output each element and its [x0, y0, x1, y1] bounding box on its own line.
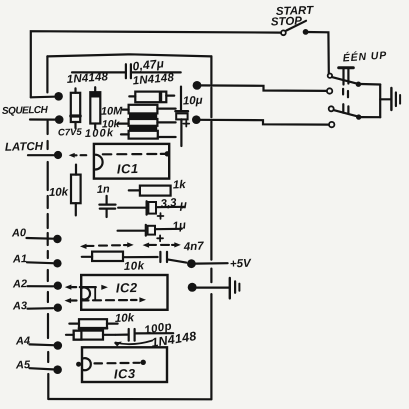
- svg-text:A4: A4: [15, 335, 30, 347]
- node A0: [53, 235, 61, 243]
- wire right rail: [379, 85, 381, 118]
- bar: [129, 126, 157, 131]
- node SQUELCH top: [54, 92, 63, 101]
- diode D3 1N4148: [74, 331, 103, 340]
- dashed arrow pair 4n7: [80, 244, 87, 249]
- node A4: [54, 341, 63, 350]
- node A2: [54, 282, 62, 290]
- wire arm to right rail: [361, 83, 380, 86]
- node SQUELCH bottom: [55, 115, 64, 124]
- bar: [129, 114, 157, 119]
- switch S1 arm: [286, 21, 306, 31]
- svg-text:10M: 10M: [101, 105, 124, 118]
- resistor R 100k bottom: [129, 131, 158, 139]
- svg-text:SQUELCH: SQUELCH: [2, 105, 49, 117]
- resistor R 10k row A1: [92, 252, 123, 261]
- svg-text:C7V5: C7V5: [58, 127, 83, 139]
- switch S1 right terminal dot: [303, 29, 309, 35]
- svg-text:A3: A3: [12, 300, 27, 312]
- svg-text:IC3: IC3: [114, 366, 136, 382]
- wire to squelch node: [31, 96, 54, 99]
- svg-text:1k: 1k: [173, 179, 187, 191]
- wire switch to EEN UP: [306, 32, 329, 73]
- switch S1 START/STOP contact circle: [281, 30, 286, 35]
- module boundary top: [47, 54, 211, 56]
- contact NC lower: [329, 122, 334, 127]
- svg-text:+5V: +5V: [230, 258, 253, 271]
- wire A3 lead: [28, 307, 54, 310]
- svg-text:1μ: 1μ: [172, 219, 187, 233]
- capacitor C 3.3u: [118, 207, 146, 209]
- wire latch lead: [28, 154, 54, 156]
- module boundary right edge: [210, 56, 212, 84]
- module boundary left solid top: [46, 56, 48, 92]
- svg-text:IC2: IC2: [116, 280, 138, 296]
- svg-text:LATCH: LATCH: [5, 141, 44, 154]
- capacitor C 1n: [105, 196, 107, 204]
- wire A1 lead: [27, 261, 53, 264]
- capacitor 0,47u: [125, 64, 127, 78]
- capacitor C 1u: [118, 230, 146, 232]
- capacitor C 100p: [116, 334, 128, 336]
- resistor R 10M: [129, 105, 158, 114]
- contact lower pivot: [329, 106, 334, 111]
- resistor R 100k vertical: [90, 92, 100, 123]
- wire A2 lead: [28, 285, 54, 287]
- svg-text:3,3: 3,3: [160, 197, 178, 211]
- svg-text:μ: μ: [179, 199, 187, 211]
- node A3: [54, 304, 62, 312]
- IC2: [81, 275, 167, 310]
- svg-text:10k: 10k: [115, 312, 135, 325]
- svg-text:4n7: 4n7: [183, 240, 205, 253]
- svg-text:A5: A5: [15, 359, 31, 371]
- node A1: [53, 259, 61, 267]
- op-amp IC1: [94, 144, 169, 179]
- pushbutton EEN UP upper pivot contact: [328, 74, 332, 78]
- wire A5 lead: [30, 368, 54, 369]
- node A5: [53, 365, 62, 374]
- wire overline / cap left wire: [72, 71, 125, 73]
- wire lower arm to rail: [361, 116, 380, 118]
- wire A0 lead: [27, 237, 53, 240]
- ground stub EEN UP: [380, 98, 390, 100]
- svg-text:STOP: STOP: [271, 15, 303, 28]
- wire to +5V: [196, 262, 228, 265]
- svg-text:10k: 10k: [124, 260, 145, 273]
- wire squelch bottom stub: [30, 118, 55, 120]
- wire from C10u bottom to contact: [198, 120, 329, 125]
- svg-text:A0: A0: [11, 227, 27, 239]
- plus 10u: [183, 121, 189, 127]
- contact NC upper: [327, 88, 332, 93]
- capacitor C row A1: [159, 252, 161, 262]
- ground G1: [390, 88, 392, 110]
- diode D2 1N4148: [135, 92, 166, 103]
- node dot C10u top: [193, 81, 202, 90]
- svg-text:100k: 100k: [85, 127, 115, 140]
- node +5V junction: [187, 259, 196, 268]
- wire IC2 gnd junction: [197, 287, 229, 289]
- svg-text:A2: A2: [12, 278, 27, 290]
- svg-text:10k: 10k: [49, 186, 69, 199]
- pushbutton EEN UP lower arm: [334, 110, 357, 116]
- node gnd junction: [188, 283, 197, 292]
- svg-text:10μ: 10μ: [183, 95, 203, 108]
- ground G2: [229, 278, 231, 298]
- actuator legs: [342, 69, 344, 85]
- pushbutton EEN UP upper arm: [332, 77, 357, 84]
- wire outer top: [31, 31, 281, 97]
- svg-text:A1: A1: [12, 253, 27, 265]
- IC3: [82, 347, 167, 382]
- dashed arrow A2: [65, 285, 72, 290]
- latch dashed arrow: [69, 153, 75, 158]
- resistor R 10k left vertical: [71, 175, 81, 204]
- dashed arrow A3: [65, 298, 72, 303]
- resistor R 10k row A4: [79, 319, 107, 328]
- annotation arrow: [116, 341, 153, 345]
- capacitor C 10u electrolytic: [180, 87, 182, 111]
- svg-text:1n: 1n: [97, 183, 111, 196]
- wire from C10u top to contact: [197, 85, 327, 91]
- wire A4 lead: [30, 343, 54, 346]
- node dot C10u bottom: [192, 115, 201, 124]
- actuator T bar: [339, 66, 354, 69]
- resistor R 1k: [140, 186, 171, 196]
- module boundary bottom: [49, 398, 212, 400]
- zener D1 C7V5: [71, 93, 80, 122]
- module boundary left dashed: [46, 121, 49, 399]
- node LATCH: [54, 151, 62, 159]
- resistor R 10k mid: [129, 119, 158, 126]
- svg-text:IC1: IC1: [117, 161, 139, 177]
